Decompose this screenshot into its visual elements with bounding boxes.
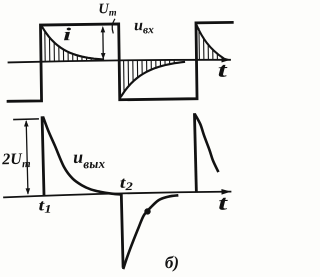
output spike 3 exponential decay (clipped) bbox=[195, 115, 217, 172]
hatching under curve segment 3 bbox=[199, 28, 217, 59]
2U_m level tick bbox=[14, 118, 38, 121]
amplitude arrow U_m bbox=[101, 26, 106, 60]
label U_m bbox=[98, 1, 117, 19]
figure label b) bbox=[165, 253, 180, 272]
leader squiggle across top level bbox=[112, 19, 115, 33]
amplitude arrow 2U_m bbox=[24, 120, 30, 195]
input square wave u_vx bbox=[7, 22, 233, 101]
svg-text:б): б) bbox=[165, 253, 180, 272]
output spike 2 falling edge at t2 bbox=[121, 194, 123, 266]
bottom axis label t bbox=[218, 190, 229, 214]
current curve segment 3 (steeper diagonal) bbox=[197, 25, 223, 58]
label 2U_m bbox=[1, 151, 31, 171]
output spike 3 rising edge bbox=[194, 115, 196, 191]
output spike 1 rising edge at t1 bbox=[42, 118, 44, 195]
label t2 bbox=[120, 174, 134, 193]
label u_vx bbox=[134, 17, 154, 36]
current curve i segment 1 (exp decay) bbox=[43, 27, 103, 61]
label t1 bbox=[38, 197, 51, 216]
current curve segment 2 (below axis) bbox=[121, 62, 185, 96]
dot marker on recovery curve bbox=[144, 208, 151, 215]
hatching under curve segment 1 bbox=[45, 31, 96, 61]
output spike 1 exponential decay bbox=[43, 116, 121, 196]
svg-text:i: i bbox=[63, 24, 71, 44]
label u_vyh bbox=[73, 146, 106, 171]
top time axis bbox=[8, 57, 230, 66]
output spike 2 exponential recovery bbox=[122, 195, 179, 267]
label i bbox=[63, 24, 71, 44]
hatching above curve segment 2 bbox=[124, 60, 175, 91]
top axis label t bbox=[217, 58, 228, 82]
bottom time axis bbox=[4, 189, 231, 200]
